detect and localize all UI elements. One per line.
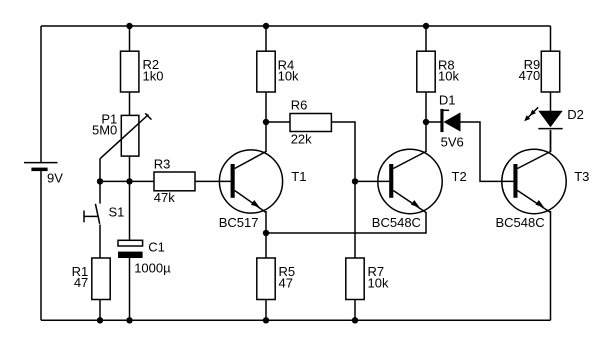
wire R8 to D1 — [425, 92, 427, 122]
svg-text:22k: 22k — [291, 132, 312, 147]
node R6 / T2 base / R7 — [352, 178, 358, 184]
resistor R1 47 — [72, 258, 111, 300]
svg-text:R6: R6 — [291, 97, 308, 112]
node R7 / ground rail — [352, 317, 358, 323]
wire R6 left stub — [266, 121, 290, 123]
battery BT 9V — [24, 163, 63, 186]
svg-text:BC548C: BC548C — [496, 215, 545, 230]
svg-text:10k: 10k — [278, 68, 299, 83]
capacitor C1 1000u — [118, 240, 171, 276]
wire battery bottom lead — [40, 171, 42, 320]
wire battery top lead — [40, 26, 42, 162]
svg-text:BC548C: BC548C — [372, 215, 421, 230]
svg-text:9V: 9V — [47, 170, 63, 185]
wire D1 cathode stub — [426, 121, 441, 123]
svg-text:T1: T1 — [291, 169, 306, 184]
wire D1 anode to T3 base — [461, 122, 515, 181]
resistor R6 22k — [290, 97, 331, 146]
wire R9 top stub — [550, 26, 552, 51]
wire D2 cathode to T3 collector — [550, 130, 552, 152]
node top rail / R4 — [263, 23, 269, 29]
svg-text:5V6: 5V6 — [441, 134, 464, 149]
switch S1 — [84, 181, 124, 258]
wire R5 bottom stub — [265, 300, 267, 321]
svg-text:D2: D2 — [567, 107, 584, 122]
node P1 / C1 — [126, 178, 132, 184]
wire P1 bottom stub — [129, 156, 131, 181]
svg-text:5M0: 5M0 — [92, 123, 117, 138]
svg-text:S1: S1 — [109, 205, 125, 220]
node C1 / ground rail — [126, 317, 132, 323]
resistor R2 1k0 — [121, 51, 164, 92]
wire T3 emitter to ground rail — [550, 211, 552, 320]
resistor R8 10k — [417, 51, 460, 92]
node R8 / D1 / T2 collector — [423, 119, 429, 125]
wire base row left — [100, 180, 154, 182]
wire R1 bottom stub — [99, 300, 101, 321]
transistor T2 BC548C — [372, 149, 467, 230]
resistor R4 10k — [257, 51, 299, 92]
node R1 / ground rail — [97, 317, 103, 323]
svg-text:D1: D1 — [439, 92, 456, 107]
resistor R7 10k — [346, 258, 389, 300]
node T1 emitter / R5 — [263, 230, 269, 236]
resistor R9 470 — [519, 51, 560, 92]
wire T2 base stub — [355, 180, 390, 182]
node R4 / R6 / T1 collector — [263, 119, 269, 125]
wire T1 emitter stub — [265, 211, 267, 233]
wire R4 to T1 collector — [265, 92, 267, 152]
wire T2 collector stub — [425, 122, 427, 152]
wire R6 right to R7 column — [331, 122, 355, 181]
wire R2 to P1 — [129, 92, 131, 115]
svg-text:47: 47 — [74, 275, 88, 290]
wire R7 bottom stub — [354, 300, 356, 321]
wire P1 wiper down — [99, 159, 101, 182]
wire R3 to T1 base — [195, 180, 232, 182]
wire R2 top stub — [129, 26, 131, 51]
wire C1 top stub — [129, 181, 131, 240]
resistor R3 47k — [154, 156, 195, 205]
svg-text:1000µ: 1000µ — [134, 261, 171, 276]
wire R5 top stub — [265, 233, 267, 258]
wire R4 top stub — [265, 26, 267, 51]
svg-text:470: 470 — [519, 68, 541, 83]
node wiper / S1 / R3 — [97, 178, 103, 184]
wire emitter bus T1-T2 — [266, 212, 426, 233]
svg-text:47: 47 — [279, 275, 293, 290]
svg-text:T2: T2 — [452, 169, 467, 184]
wire T3 collector stub — [550, 130, 552, 152]
wire R8 top stub — [425, 26, 427, 51]
wire C1 bottom stub — [129, 258, 131, 320]
potentiometer P1 5M0 — [92, 112, 151, 159]
svg-text:T3: T3 — [574, 169, 589, 184]
svg-text:47k: 47k — [154, 190, 175, 205]
wire top supply rail — [41, 25, 551, 27]
svg-text:BC517: BC517 — [219, 215, 259, 230]
svg-text:10k: 10k — [368, 275, 389, 290]
wire bottom ground rail — [41, 319, 551, 321]
node R5 / ground rail — [263, 317, 269, 323]
transistor T3 BC548C — [496, 149, 590, 230]
node top rail / R2 — [126, 23, 132, 29]
transistor T1 BC517 — [219, 150, 307, 230]
wire R9 to D2 — [550, 92, 552, 111]
svg-text:R3: R3 — [154, 156, 171, 171]
svg-text:10k: 10k — [438, 68, 459, 83]
wire R7 top stub — [354, 181, 356, 258]
resistor R5 47 — [257, 258, 295, 300]
svg-text:C1: C1 — [148, 240, 165, 255]
zener diode D1 5V6 — [439, 92, 464, 149]
LED D2 — [524, 107, 584, 128]
node top rail / R8 — [423, 23, 429, 29]
svg-text:1k0: 1k0 — [143, 68, 164, 83]
